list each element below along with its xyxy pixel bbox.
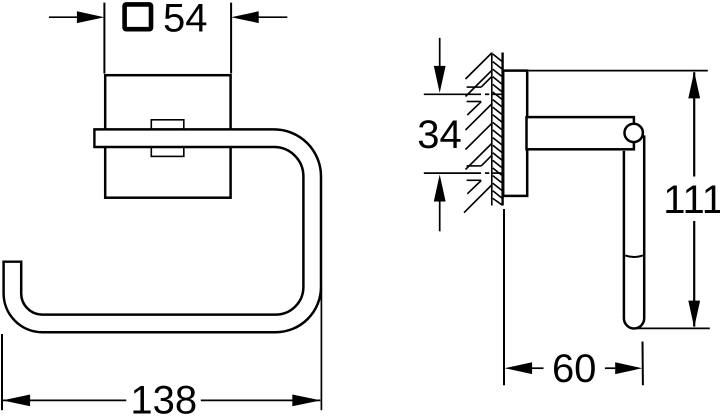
svg-text:138: 138: [130, 379, 197, 417]
svg-text:34: 34: [417, 113, 462, 157]
svg-text:111: 111: [663, 178, 720, 222]
svg-text:54: 54: [163, 0, 208, 40]
svg-text:60: 60: [552, 347, 597, 391]
